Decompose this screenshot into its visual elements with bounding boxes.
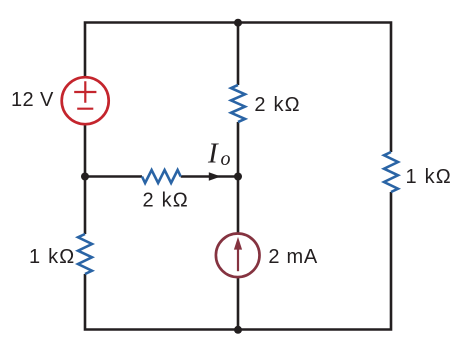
node junction dot center middle: [234, 173, 242, 181]
voltage source V plus sign: [74, 81, 96, 103]
wire: right-bottom segment, bottom side, left-bottom segment of outer loop: [85, 192, 391, 330]
resistor 1 kOhm left vertical zigzag: [78, 234, 92, 274]
node junction dot bottom center: [234, 326, 242, 334]
svg-text:1 kΩ: 1 kΩ: [29, 246, 75, 268]
voltage source V minus sign: [77, 108, 93, 110]
svg-text:2 kΩ: 2 kΩ: [143, 190, 189, 212]
svg-text:o: o: [221, 148, 231, 170]
svg-text:2 mA: 2 mA: [268, 246, 317, 268]
wire: middle vertical from top node down to 2 kOhm resistor: [237, 23, 240, 86]
resistor 2 kOhm horizontal zigzag: [142, 170, 181, 183]
node junction dot top center: [234, 19, 242, 27]
resistor 1 kOhm right vertical zigzag: [384, 152, 398, 192]
svg-text:12 V: 12 V: [11, 89, 54, 111]
resistor 2 kOhm middle vertical zigzag: [231, 85, 245, 122]
svg-text:2 kΩ: 2 kΩ: [254, 94, 300, 116]
svg-text:1 kΩ: 1 kΩ: [406, 166, 452, 188]
voltage source V 12V: circle: [62, 77, 109, 124]
wire: middle horizontal branch, left node to resistor: [85, 175, 142, 178]
wire: middle vertical from current source to bottom node: [237, 277, 240, 329]
wire: top side, left-top segment and right-top segment of outer loop: [85, 23, 391, 153]
current arrow Io head on middle wire: [209, 172, 221, 180]
wire: middle horizontal branch, resistor to center node: [181, 175, 238, 178]
wire: left side between voltage source and 1 kOhm resistor: [84, 124, 87, 234]
svg-text:I: I: [207, 138, 219, 170]
current source I arrow: [237, 248, 239, 271]
current source I 2mA: circle: [216, 234, 260, 278]
node junction dot left middle: [81, 173, 89, 181]
wire: middle vertical between 2 kOhm resistor and current source: [237, 122, 240, 234]
